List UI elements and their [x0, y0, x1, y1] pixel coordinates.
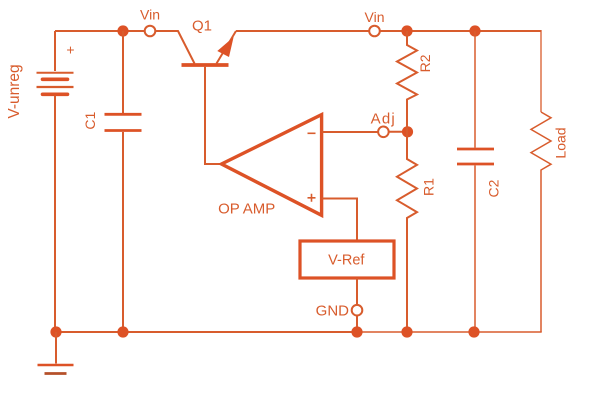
- battery plate short 2: [43, 93, 68, 97]
- svg-text:C1: C1: [82, 112, 98, 130]
- capacitor C2 plate top: [457, 148, 494, 151]
- junction: R1/R2/Adj: [402, 126, 413, 137]
- svg-text:Vin: Vin: [365, 9, 385, 25]
- ground symbol bar 2: [45, 372, 67, 375]
- node Adj open circle: [378, 127, 389, 138]
- svg-text:Q1: Q1: [192, 18, 212, 35]
- op-amp inverting input marker -: [308, 132, 316, 134]
- junction: rail / C1: [117, 326, 128, 337]
- svg-text:R1: R1: [421, 178, 437, 196]
- capacitor C1 lead top: [122, 31, 124, 113]
- capacitor C2 lead bottom: [474, 166, 476, 333]
- junction: rail / GND: [351, 326, 362, 337]
- junction: top rail / C1: [117, 25, 128, 36]
- battery lead bottom / wire to ground rail: [54, 96, 56, 333]
- battery V-unreg lead top: [54, 31, 56, 71]
- svg-text:+: +: [66, 42, 74, 58]
- wire: Adj circle to divider junction: [389, 131, 408, 133]
- battery plate short 1: [43, 78, 68, 82]
- capacitor C2 plate bottom: [457, 163, 494, 166]
- ground symbol stem: [55, 332, 57, 364]
- capacitor C1 plate top: [105, 113, 142, 116]
- wire: right edge down to Load: [540, 30, 542, 112]
- wire: top rail left (battery to Vin circle): [55, 30, 144, 32]
- wire: Q1 emitter to Vin (right) circle: [236, 30, 369, 32]
- node Vin (right) open circle: [369, 26, 380, 37]
- transistor Q1 base bar: [182, 63, 229, 67]
- op-amp non-inverting input marker +: [308, 194, 316, 202]
- junction: top rail / R2: [401, 25, 412, 36]
- capacitor C1 lead bottom: [122, 132, 124, 332]
- svg-text:GND: GND: [316, 302, 350, 319]
- wire: bottom rail right portion: [357, 331, 542, 333]
- svg-text:OP AMP: OP AMP: [218, 200, 275, 217]
- wire: inverting input to Adj circle: [322, 131, 378, 133]
- V-Ref box U2: [300, 241, 394, 278]
- battery plate long 1: [37, 72, 74, 74]
- svg-text:Load: Load: [553, 127, 569, 158]
- node GND open circle: [352, 305, 363, 316]
- junction: rail / C2: [468, 326, 479, 337]
- svg-text:Vin: Vin: [140, 7, 160, 23]
- wire: non-inverting input to V-Ref: [322, 199, 357, 242]
- wire: GND circle to bottom rail: [356, 316, 358, 332]
- battery plate long 2: [37, 86, 74, 88]
- wire: V-Ref bottom to GND circle: [356, 278, 358, 305]
- wire: top rail right to Load corner: [381, 30, 542, 32]
- resistor R1: [397, 132, 417, 332]
- resistor R2: [397, 31, 417, 132]
- svg-text:V-Ref: V-Ref: [328, 253, 365, 269]
- op-amp U1 triangle: [222, 115, 322, 216]
- wire: bottom ground rail: [56, 331, 357, 333]
- ground symbol bar 1: [38, 364, 74, 367]
- svg-text:C2: C2: [485, 179, 501, 197]
- junction: top rail / C2: [469, 25, 480, 36]
- svg-text:Adj: Adj: [371, 111, 396, 128]
- capacitor C2 lead top: [474, 31, 476, 148]
- transistor Q1 emitter arrow head: [217, 37, 233, 57]
- capacitor C1 plate bottom: [105, 129, 142, 132]
- resistor Load: [531, 112, 551, 332]
- svg-text:R2: R2: [417, 54, 433, 72]
- wire: Q1 base lead down and op-amp output: [205, 67, 222, 164]
- transistor Q1 emitter diagonal with arrow: [217, 31, 237, 64]
- junction: rail / R1: [401, 326, 412, 337]
- wire: Vin circle to Q1 collector: [156, 31, 195, 64]
- svg-text:V-unreg: V-unreg: [6, 64, 23, 118]
- junction: rail / battery: [50, 326, 61, 337]
- node Vin (left) open circle: [145, 26, 156, 37]
